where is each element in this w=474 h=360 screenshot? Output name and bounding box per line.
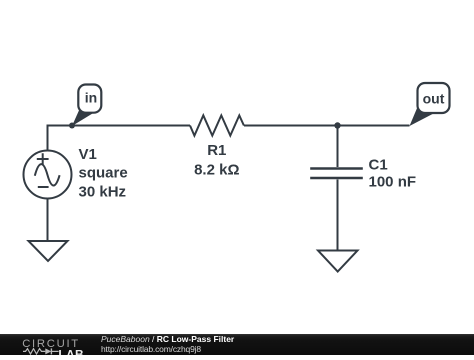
node out: flag tail	[410, 107, 434, 126]
svg-text:30 kHz: 30 kHz	[79, 184, 127, 201]
svg-text:LAB: LAB	[58, 348, 84, 356]
voltage source V1	[24, 151, 72, 199]
CircuitLab logo	[22, 334, 112, 355]
ground (V1)	[29, 241, 68, 261]
wire: capacitor bottom plate to ground	[337, 180, 339, 251]
svg-text:square: square	[79, 165, 128, 182]
node out: flag box	[418, 83, 450, 113]
svg-text:100 nF: 100 nF	[369, 174, 417, 191]
svg-text:in: in	[85, 90, 97, 106]
svg-text:R1: R1	[207, 142, 226, 159]
node in: flag box	[78, 85, 101, 113]
V1 sine symbol	[35, 164, 60, 185]
url line	[101, 344, 201, 354]
wire: V1 top lead and main horizontal net "in" segment	[48, 126, 191, 151]
wire: resistor right lead to out flag anchor	[244, 125, 410, 127]
capacitor C1	[310, 169, 363, 179]
attribution line	[101, 334, 234, 344]
svg-text:8.2 kΩ: 8.2 kΩ	[194, 161, 239, 178]
junction dot (in anchor)	[69, 123, 75, 129]
node in: flag tail	[72, 107, 93, 126]
footer bar	[0, 334, 474, 355]
ground (C1)	[318, 251, 358, 272]
V1 plus sign	[37, 153, 49, 165]
svg-text:C1: C1	[369, 157, 388, 174]
junction node between R1 and C1	[334, 122, 340, 128]
svg-text:out: out	[423, 91, 445, 107]
wire: V1 bottom lead	[47, 199, 49, 242]
svg-text:V1: V1	[79, 146, 97, 163]
V1 minus sign	[38, 186, 49, 188]
resistor R1	[190, 115, 244, 135]
wire: junction to capacitor top plate	[337, 126, 339, 168]
